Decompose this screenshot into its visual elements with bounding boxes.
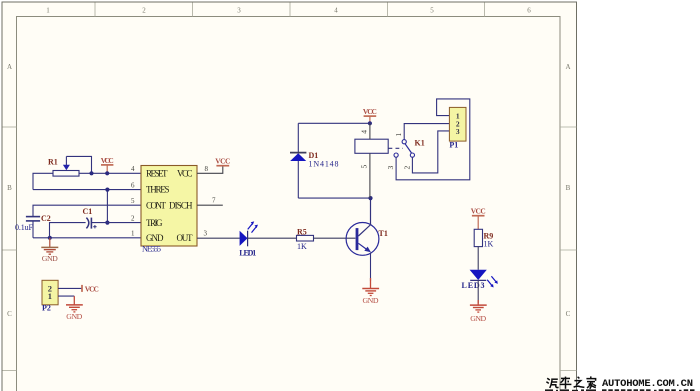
svg-text:7: 7 (212, 196, 216, 204)
svg-text:VCC: VCC (177, 169, 193, 179)
svg-text:VCC: VCC (215, 157, 230, 166)
svg-text:CONT: CONT (146, 201, 167, 211)
svg-text:P2: P2 (42, 303, 51, 312)
watermark chinese glyphs (546, 376, 596, 388)
svg-text:2: 2 (131, 214, 135, 222)
svg-text:1: 1 (48, 291, 52, 301)
wire R5 to T1 base (314, 237, 356, 239)
svg-text:A: A (565, 63, 570, 71)
wire relay bottom net (298, 197, 370, 199)
wire THRES-TRIG tie (106, 190, 108, 223)
frame row letters (7, 63, 571, 318)
watermark second row clipped at bottom edge (545, 389, 695, 391)
svg-text:R5: R5 (297, 227, 307, 236)
wire LED1 to R5 (248, 237, 297, 239)
node VCC junction on RESET net (105, 171, 109, 175)
svg-text:TRIG: TRIG (146, 218, 163, 228)
svg-text:3: 3 (237, 7, 241, 15)
svg-text:P1: P1 (449, 141, 458, 150)
svg-text:GND: GND (363, 296, 379, 305)
svg-text:C: C (7, 310, 12, 318)
ground below LED3 (470, 300, 487, 323)
svg-text:C: C (566, 310, 571, 318)
wire switch pin2 to P1 pin3 (412, 131, 449, 173)
svg-text:C1: C1 (83, 207, 93, 216)
svg-text:6: 6 (131, 181, 135, 189)
svg-text:DISCH: DISCH (169, 201, 193, 211)
node R1 wiper junction (89, 171, 93, 175)
svg-text:AUTOHOME.COM.CN: AUTOHOME.COM.CN (602, 378, 693, 390)
node VCC relay junction (368, 121, 372, 125)
wire LED3 to ground (477, 280, 479, 303)
relay K1 coil (355, 123, 388, 198)
svg-text:1: 1 (46, 7, 50, 15)
wire pin8 to VCC (197, 166, 223, 174)
ground below C2 (41, 238, 58, 263)
svg-text:VCC: VCC (85, 284, 99, 293)
svg-text:R1: R1 (48, 158, 58, 167)
pin numbers NE555 left (131, 165, 135, 238)
svg-text:1K: 1K (297, 242, 307, 251)
svg-text:1: 1 (394, 133, 403, 137)
wire THRES net (33, 189, 141, 191)
wire pin4/RESET net (33, 173, 141, 189)
node GND junction (48, 236, 52, 240)
relay K1 switch (394, 139, 425, 158)
svg-text:B: B (566, 184, 571, 192)
svg-text:6: 6 (527, 7, 531, 15)
svg-text:1: 1 (131, 230, 135, 238)
svg-text:8: 8 (205, 165, 209, 173)
pin numbers NE555 right (204, 165, 217, 238)
svg-text:5: 5 (360, 165, 369, 169)
connector P1 (449, 107, 466, 149)
op-amp U1 NE555 timer (141, 166, 197, 254)
svg-text:LED1: LED1 (239, 249, 256, 258)
svg-text:VCC: VCC (363, 107, 377, 116)
wire R9 to LED3 (477, 247, 479, 270)
svg-text:5: 5 (430, 7, 434, 15)
wire GND net bottom (33, 237, 141, 239)
svg-text:GND: GND (66, 312, 82, 321)
svg-text:1K: 1K (484, 240, 494, 249)
svg-text:B: B (7, 184, 12, 192)
svg-text:GND: GND (146, 233, 164, 243)
svg-text:VCC: VCC (101, 156, 114, 165)
wire P2 pin2 to VCC (58, 287, 82, 289)
svg-text:NE555: NE555 (142, 245, 161, 254)
wire pin7 stub (197, 204, 223, 206)
LED3 (462, 270, 498, 290)
svg-text:0.1uF: 0.1uF (15, 223, 34, 232)
power VCC at R1 (101, 156, 114, 174)
svg-text:C2: C2 (41, 214, 51, 223)
svg-text:OUT: OUT (177, 233, 194, 243)
svg-text:4: 4 (131, 165, 135, 173)
capacitor C1 (83, 207, 97, 229)
wire C1 branch (50, 223, 86, 238)
svg-text:3: 3 (204, 230, 208, 238)
svg-text:3: 3 (386, 166, 395, 170)
svg-text:1N4148: 1N4148 (309, 159, 339, 168)
power VCC at relay (363, 107, 377, 123)
svg-text:3: 3 (456, 127, 460, 136)
svg-text:T1: T1 (379, 229, 388, 238)
wire OUT net (197, 237, 240, 239)
power VCC at R9 (471, 206, 486, 229)
transistor T1 (NPN) (346, 198, 388, 281)
wire switch pin1 to P1 pin2 (404, 124, 449, 140)
power VCC at P2 (82, 284, 99, 293)
node THRES junction (105, 188, 109, 192)
svg-text:A: A (7, 63, 12, 71)
ground below T1 (362, 278, 379, 305)
svg-text:GND: GND (42, 254, 58, 263)
svg-text:4: 4 (334, 7, 338, 15)
node collector junction (368, 196, 372, 200)
svg-text:LED3: LED3 (462, 281, 485, 290)
svg-text:VCC: VCC (471, 206, 486, 215)
node TRIG junction (105, 221, 109, 225)
LED1 (239, 221, 258, 257)
wire TRIG net (91, 222, 141, 224)
resistor R1 (potentiometer) (48, 156, 92, 176)
wire relay actuation dashes (389, 147, 404, 149)
svg-text:K1: K1 (415, 139, 425, 148)
ground at P2 (66, 296, 83, 321)
svg-text:2: 2 (402, 166, 411, 170)
svg-text:RESET: RESET (146, 169, 168, 179)
frame column numbers (46, 7, 531, 15)
wire relay top net (298, 122, 370, 124)
power VCC at NE555 pin8 (215, 157, 230, 166)
wire CONT net (33, 205, 141, 216)
inner border frame (17, 17, 561, 391)
svg-text:4: 4 (360, 130, 369, 134)
frame row dividers (3, 127, 577, 371)
diode D1 1N4148 (290, 123, 339, 198)
resistor R9 (474, 229, 493, 248)
wire switch pin3 to P1 loop (396, 99, 470, 180)
frame column dividers (95, 3, 485, 17)
capacitor C2 (15, 214, 51, 238)
connector P2 (42, 280, 58, 312)
wire P2 pin1 to ground (58, 295, 74, 297)
svg-text:2: 2 (142, 7, 146, 15)
svg-text:5: 5 (131, 197, 135, 205)
svg-text:GND: GND (470, 314, 486, 323)
svg-text:THRES: THRES (146, 185, 170, 195)
resistor R5 (297, 227, 314, 251)
